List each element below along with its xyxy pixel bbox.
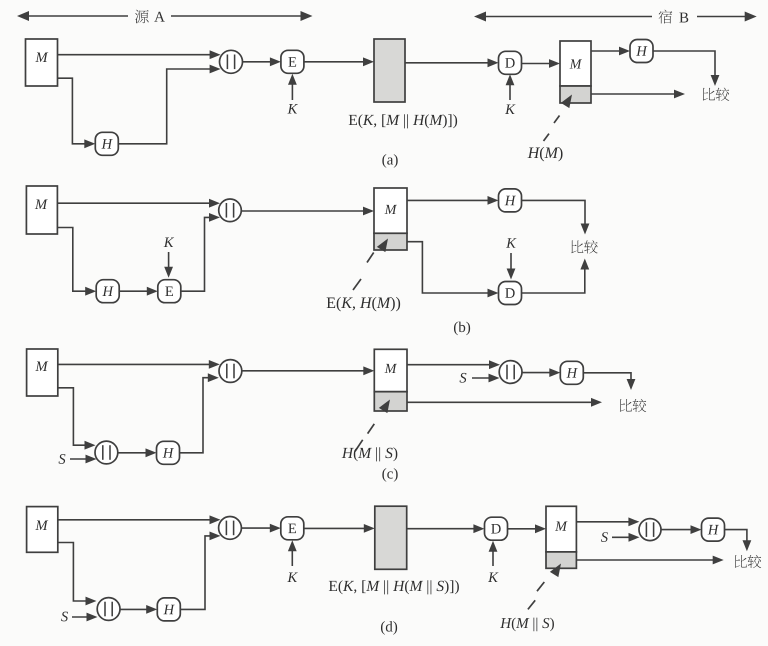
row b: wire hash field to D [407, 242, 490, 293]
row d: compare label 比较 [735, 555, 747, 568]
row d: source message box M [27, 507, 58, 553]
row a: concat node || [220, 50, 243, 73]
row a: encrypt node E [281, 50, 304, 73]
row d: wire D to received box [508, 528, 538, 530]
row d: wire lower concat to H [120, 608, 149, 610]
row a: ciphertext block [374, 39, 405, 102]
row c: concat node || [219, 360, 242, 383]
row b: key K arrow into D [510, 253, 512, 274]
caption (d) [381, 621, 397, 635]
callout dash segment 2 [544, 134, 550, 141]
callout dash segment 1 [554, 116, 560, 124]
row c: lower concat node || [95, 441, 118, 464]
row a: wire H down to compare [653, 51, 715, 78]
row b: key K label (dest) [506, 238, 516, 247]
label 宿 [659, 10, 673, 24]
callout dash segment 2 [355, 440, 363, 452]
callout dash segment 2 [528, 600, 535, 609]
row d: wire concat to E [241, 527, 272, 529]
row a: key K label [287, 104, 297, 113]
label B [679, 13, 688, 23]
row a: hash node H [95, 132, 118, 155]
row b: dest hash node H [499, 189, 522, 212]
destination B span line right [697, 16, 747, 18]
destination B span arrow (right head) [745, 12, 757, 22]
row c: dest salt S label [460, 373, 467, 383]
row d: encrypt node E [281, 517, 304, 540]
callout arrowhead into hash field [550, 561, 565, 577]
caption (c) [382, 468, 397, 482]
row d: decrypt node D [485, 517, 508, 540]
row d: received hash field (shaded) [546, 552, 576, 568]
row d: callout label H(M||S) [500, 618, 554, 632]
row b: source message box M [26, 186, 57, 234]
row a: wire M down to H [58, 78, 88, 144]
label A [154, 12, 165, 22]
row d: wire M to dest concat [576, 521, 631, 523]
row c: compare label 比较 [620, 399, 632, 412]
row d: wire S to lower concat [72, 616, 89, 618]
row c: salt S label [59, 454, 66, 464]
source A span arrow (right head) [301, 11, 313, 21]
row a: ciphertext label E(K,[M||H(M)]) [349, 114, 457, 128]
row d: key K arrow into E [291, 546, 293, 567]
row b: concat node || [219, 199, 242, 222]
row c: wire lower concat to H [117, 452, 148, 454]
row a: key K label right [505, 105, 515, 114]
row c: received message box M part [374, 349, 407, 391]
row c: received M label [385, 364, 397, 373]
caption (a) [382, 154, 397, 168]
label 源 [135, 10, 149, 24]
row c: wire hash field to compare [407, 401, 594, 403]
row d: dest hash node H [702, 518, 725, 541]
row a: wire M to concat (top) [58, 54, 213, 56]
row b: received hash field (shaded) [374, 233, 407, 250]
row d: received message box M part [546, 506, 576, 552]
row d: key K label [287, 573, 297, 582]
row b: decrypt node D [499, 282, 522, 305]
row d: dest salt S label [601, 532, 608, 542]
row c: wire M down to lower concat [58, 388, 87, 445]
row d: lower concat node || [97, 598, 120, 621]
row a: source message box M [26, 39, 58, 86]
row a: wire H to concat (bottom) [118, 69, 212, 144]
row b: hash node H [96, 280, 119, 303]
row c: wire H down to compare [583, 373, 631, 382]
row d: key K label (dest) [488, 573, 498, 582]
row c: wire S to dest concat [472, 377, 492, 379]
row d: wire E to ciphertext [304, 527, 367, 529]
row d: wire H down to compare [725, 530, 747, 543]
row d: key K arrow into D [492, 546, 494, 566]
row b: wire E up to concat [181, 217, 211, 291]
row a: wire D to received message [522, 63, 552, 65]
row d: ciphertext label E(K,[M||H(M||S)]) [329, 580, 459, 594]
caption (b) [454, 322, 470, 336]
row b: encrypt node E [158, 280, 181, 303]
callout arrowhead into hash field [561, 92, 576, 108]
row d: wire ciphertext to D [407, 528, 476, 530]
row d: wire hash field to compare [576, 559, 715, 561]
row a: decrypt node D [499, 51, 522, 74]
row c: wire concat to received box [241, 370, 365, 372]
row a: wire hash field to compare [591, 93, 677, 95]
row d: received M label [555, 522, 567, 531]
row c: dest concat node || [499, 361, 522, 384]
row a: compare label 比较 [703, 88, 715, 101]
row d: ciphertext block [375, 506, 407, 569]
source A span arrow (left head) [17, 11, 29, 21]
callout dash segment 2 [353, 279, 361, 290]
row b: wire H down to compare [522, 200, 586, 226]
row b: compare label 比较 [571, 240, 583, 253]
row d: hash node H [157, 598, 180, 621]
row b: wire concat to received box [241, 210, 366, 212]
callout dash segment 1 [367, 253, 374, 263]
row d: wire S to dest concat [612, 536, 632, 538]
row c: received hash field (shaded) [374, 392, 407, 411]
row a: wire E to ciphertext [304, 61, 366, 63]
row d: concat node || [219, 517, 242, 540]
row c: source M label [35, 362, 48, 371]
row b: callout label E(K,H(M)) [327, 297, 400, 312]
row a: wire ciphertext to D [405, 62, 490, 64]
row d: wire concat to H (dest) [661, 529, 694, 531]
row b: received M label [385, 205, 397, 214]
row c: wire S to lower concat [70, 458, 88, 460]
row d: salt S label [61, 612, 68, 622]
row d: wire M to concat (top) [58, 519, 212, 521]
row b: source M label [35, 200, 48, 209]
row a: key K arrow into D [509, 80, 511, 101]
destination B span arrow (left head) [474, 12, 486, 22]
row c: wire M to dest concat [407, 364, 492, 366]
row a: callout label H(M) [528, 147, 563, 162]
row c: source message box M [27, 349, 58, 396]
row b: wire M down to H [57, 228, 88, 292]
row a: received message box M part [560, 41, 591, 86]
row c: wire concat to H (dest) [522, 372, 552, 374]
row c: callout label H(M||S) [342, 447, 398, 461]
row b: wire M to concat (top) [57, 202, 211, 204]
row a: wire concat to E [242, 61, 272, 63]
row c: wire H up to concat [180, 378, 211, 453]
row c: hash node H [157, 441, 180, 464]
row b: key K arrow into E [168, 252, 170, 272]
row a: wire M to H (dest) [591, 50, 622, 52]
row a: dest hash node H [630, 40, 653, 63]
source A span line right [171, 15, 303, 17]
callout dash segment 1 [537, 582, 544, 591]
row a: received M label [570, 59, 582, 68]
row b: wire H to E [119, 290, 149, 292]
row b: key K label [164, 238, 174, 247]
row a: source M label [35, 53, 48, 62]
row b: received message box M part [374, 188, 407, 233]
row c: dest hash node H [560, 361, 583, 384]
row c: wire M to concat (top) [58, 363, 212, 365]
row b: wire D up to compare [522, 267, 585, 293]
row d: dest concat node || [639, 519, 661, 541]
callout dash segment 1 [368, 424, 375, 434]
row d: source M label [35, 521, 48, 530]
callout arrowhead into hash field [379, 397, 394, 413]
row d: wire H up to concat [180, 536, 212, 610]
row b: wire M to H (dest) [407, 199, 490, 201]
destination B span line left [478, 16, 652, 18]
row d: wire M down to lower concat [58, 543, 88, 602]
callout arrowhead into hash field [377, 236, 392, 252]
source A span line left [21, 15, 128, 17]
row a: received hash field (shaded) [560, 86, 591, 103]
row a: key K arrow into E [291, 79, 293, 100]
